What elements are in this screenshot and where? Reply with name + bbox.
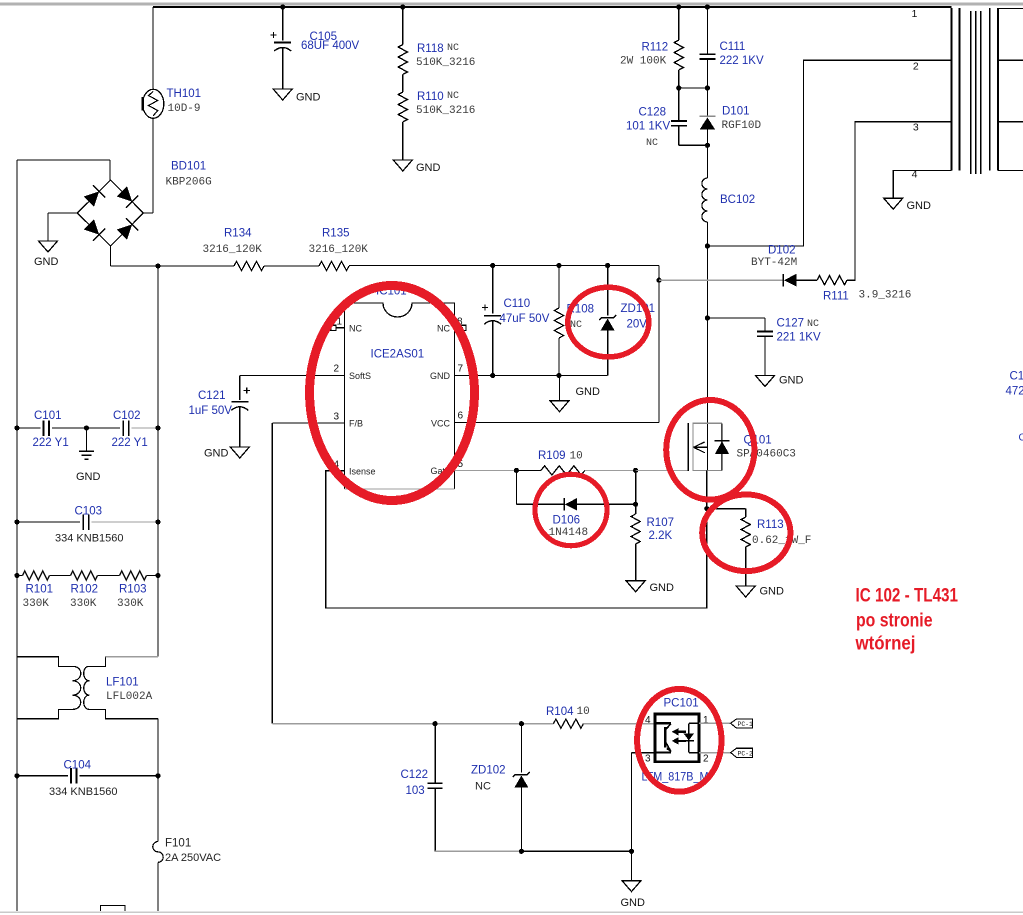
svg-text:3.9_3216: 3.9_3216 <box>859 290 912 302</box>
wire gnd stem pin7 <box>559 376 561 401</box>
svg-text:GND: GND <box>34 256 59 268</box>
junction R101 left <box>14 573 19 578</box>
label R113 value <box>752 535 811 547</box>
wire LF101 top-left lead <box>17 657 73 667</box>
wire R111 to pin3 <box>847 122 952 281</box>
ground C105 <box>273 89 320 104</box>
inductor BC102 <box>702 178 707 222</box>
svg-text:R111: R111 <box>823 291 849 303</box>
svg-text:po stronie: po stronie <box>856 611 933 632</box>
label PC101 pin1 <box>703 715 709 726</box>
wire feedback rail <box>272 723 553 725</box>
junction gate node <box>633 468 638 473</box>
label R110 <box>417 91 444 103</box>
annotation text IC 102 - TL431 <box>855 586 959 655</box>
label R111 <box>823 291 849 303</box>
svg-text:ZD102: ZD102 <box>471 765 506 777</box>
junction AC node <box>155 263 160 268</box>
label pin name VCC <box>431 418 451 428</box>
ground C127 <box>756 375 804 387</box>
label C102 value <box>112 437 148 449</box>
wire right column lower <box>157 719 159 842</box>
wire R102-R103 <box>98 575 120 577</box>
svg-text:GND: GND <box>296 92 321 104</box>
label C127 NC <box>807 319 819 330</box>
bridge BD101 wires <box>17 160 110 180</box>
wire PC101 pin3 <box>632 753 656 852</box>
svg-text:2W 100K: 2W 100K <box>620 56 667 68</box>
svg-text:3: 3 <box>645 754 651 765</box>
svg-text:NC: NC <box>807 319 819 330</box>
capacitor C104 <box>17 768 158 784</box>
label xfmr pin 4 <box>912 169 918 181</box>
wire left column <box>16 160 18 911</box>
svg-text:D101: D101 <box>722 106 750 118</box>
ground bridge <box>34 241 59 268</box>
resistor R110 <box>398 92 407 122</box>
label R118 NC <box>447 43 459 54</box>
svg-text:GND: GND <box>760 586 785 598</box>
wire bridge minus <box>48 213 77 241</box>
label pin 6 <box>458 411 464 422</box>
label C121 <box>198 390 226 402</box>
resistor R104 <box>553 719 583 728</box>
svg-text:R134: R134 <box>224 228 252 240</box>
label BD101 <box>171 161 206 173</box>
resistor R103 <box>120 571 159 580</box>
label C122 <box>401 769 429 781</box>
label R104 value <box>577 706 590 718</box>
svg-text:510K_3216: 510K_3216 <box>416 105 475 117</box>
wire PC101 pin2 to PC-2 <box>699 752 731 754</box>
label xfmr pin 3 <box>913 122 919 134</box>
optocoupler phototransistor <box>655 723 671 752</box>
svg-text:R118: R118 <box>417 43 444 55</box>
wire D102 anode <box>659 279 783 281</box>
wire LF101 bottom-left lead <box>17 709 72 718</box>
label R135 <box>322 228 350 240</box>
label ZD101 <box>621 303 656 315</box>
label TH101 value <box>168 103 201 115</box>
label C128 value <box>626 121 670 133</box>
label R108 NC <box>570 320 582 331</box>
capacitor C103 <box>17 514 158 530</box>
label C127 <box>777 318 805 330</box>
svg-text:330K: 330K <box>70 598 97 610</box>
ground R107 <box>626 581 674 594</box>
svg-text:Q101: Q101 <box>744 435 772 447</box>
capacitor C101 <box>17 420 120 436</box>
label R112 <box>642 42 669 54</box>
svg-text:PC-2: PC-2 <box>738 751 754 758</box>
svg-text:334 KNB1560: 334 KNB1560 <box>55 533 124 545</box>
svg-text:NC: NC <box>437 323 450 333</box>
label R134 <box>224 228 252 240</box>
svg-text:68UF 400V: 68UF 400V <box>301 40 360 52</box>
label C127 value <box>777 332 821 344</box>
optocoupler LED <box>684 723 699 752</box>
wire R134-R135 <box>264 265 319 267</box>
junction drain node <box>705 243 710 248</box>
label R101 value <box>23 598 50 610</box>
svg-text:10D-9: 10D-9 <box>168 103 201 115</box>
junction ZD102 bottom <box>519 849 524 854</box>
svg-text:GND: GND <box>907 200 932 212</box>
label R135 value <box>309 244 369 256</box>
capacitor C105 <box>270 7 291 89</box>
transformer secondary winding bars <box>990 8 998 171</box>
label pin 1 <box>336 317 342 328</box>
svg-text:101 1KV: 101 1KV <box>626 121 670 133</box>
label pin name NC right <box>437 323 450 333</box>
label R109 value <box>570 451 583 463</box>
wire TH101 top <box>152 7 154 90</box>
pin 2 SoftS wire <box>240 374 345 376</box>
pin 4 Isense wire <box>326 471 707 608</box>
label pin 8 <box>457 317 463 328</box>
svg-text:GND: GND <box>430 371 451 381</box>
svg-text:2: 2 <box>333 364 339 375</box>
label secondary cap value 472 (clipped) <box>1006 386 1023 398</box>
transformer core <box>971 11 981 174</box>
junction pin7 / C110 <box>490 373 495 378</box>
svg-text:R107: R107 <box>647 517 675 529</box>
svg-text:10: 10 <box>570 451 583 463</box>
label xfmr pin 2 <box>913 61 919 73</box>
wire R118-R110 <box>402 75 404 93</box>
junction D106 / R107 <box>633 502 638 507</box>
label pin name NC left <box>349 323 362 333</box>
wire fb gnd rail <box>521 850 631 852</box>
label IC101 refdes <box>376 286 407 298</box>
svg-text:4: 4 <box>645 715 651 726</box>
svg-text:GND: GND <box>204 448 229 460</box>
svg-text:BD101: BD101 <box>171 161 206 173</box>
capacitor C128 <box>671 88 708 145</box>
svg-text:GND: GND <box>576 386 601 398</box>
wire Q101 source <box>706 471 708 509</box>
ground C121 <box>204 447 249 460</box>
transformer primary winding bars <box>952 8 960 171</box>
svg-text:BYT-42M: BYT-42M <box>751 257 797 269</box>
svg-text:R109: R109 <box>538 450 566 462</box>
connector PC-1 <box>731 719 753 728</box>
svg-text:KBP206G: KBP206G <box>166 177 212 189</box>
label ZD101 value <box>627 319 648 331</box>
label R110 NC <box>447 91 459 102</box>
inductor LF101 right winding <box>84 666 90 709</box>
label D101 <box>722 106 750 118</box>
svg-text:2: 2 <box>913 61 919 73</box>
wire fuse bottom <box>157 862 159 911</box>
label C101 <box>34 410 62 422</box>
label R102 value <box>70 598 97 610</box>
bridge rectifier BD101 <box>77 180 143 246</box>
junction C104 left <box>14 773 19 778</box>
label R102 <box>71 584 99 596</box>
label pin name F/B <box>349 419 363 429</box>
svg-text:1uF 50V: 1uF 50V <box>189 405 233 417</box>
svg-text:C122: C122 <box>401 769 429 781</box>
resistor R134 <box>234 261 264 270</box>
svg-text:330K: 330K <box>117 598 144 610</box>
label PC101 <box>664 698 699 710</box>
svg-text:2: 2 <box>703 754 709 765</box>
svg-text:103: 103 <box>406 785 425 797</box>
label C128 <box>639 107 667 119</box>
transistor Q101 body diode <box>715 423 730 470</box>
svg-text:NC: NC <box>447 91 459 102</box>
wire LF101 top-right lead <box>89 657 158 667</box>
resistor R108 <box>554 266 563 376</box>
annotation ellipse IC101 <box>310 286 475 501</box>
label C110 <box>504 298 531 310</box>
svg-text:3216_120K: 3216_120K <box>309 244 369 256</box>
svg-text:R104: R104 <box>546 706 574 718</box>
wire gate-R109 <box>516 469 541 471</box>
junction pin7 / R108 <box>556 373 561 378</box>
label pin 4 <box>333 459 339 470</box>
label C121 value <box>189 405 233 417</box>
pin 6 VCC wire <box>455 421 660 423</box>
label C105 <box>310 31 338 43</box>
wire bridge bottom <box>111 246 235 266</box>
wire BC102 bottom <box>706 222 708 246</box>
svg-text:SPA0460C3: SPA0460C3 <box>737 449 796 461</box>
svg-text:NC: NC <box>349 323 362 333</box>
thermistor TH101 <box>143 89 164 118</box>
diode D106 <box>564 498 636 511</box>
label PC101 pin3 <box>645 754 651 765</box>
wire secondary stub 4 <box>998 170 1023 172</box>
junction gate / D106 <box>514 468 519 473</box>
svg-text:F101: F101 <box>165 838 191 850</box>
svg-text:R113: R113 <box>757 519 784 531</box>
junction source / R113 <box>704 506 709 511</box>
annotation circle R113 <box>702 495 790 572</box>
svg-text:2A 250VAC: 2A 250VAC <box>165 852 221 864</box>
svg-text:LF101: LF101 <box>106 677 139 689</box>
svg-text:NC: NC <box>447 43 459 54</box>
label D102 <box>768 245 796 257</box>
wire R104 to PC101 <box>583 723 655 725</box>
label R104 <box>546 706 574 718</box>
svg-text:GND: GND <box>650 582 675 594</box>
wire VCC rail <box>349 266 659 423</box>
optocoupler light arrows <box>672 728 686 744</box>
pin 8 NC stub <box>455 325 467 330</box>
svg-text:RGF10D: RGF10D <box>722 120 762 132</box>
label xfmr pin 1 <box>912 8 918 20</box>
ground feedback <box>621 881 646 909</box>
svg-text:222 1KV: 222 1KV <box>720 55 764 67</box>
svg-text:PC101: PC101 <box>664 698 699 710</box>
junction gnd rail / PC101 <box>629 849 634 854</box>
wire gnd stem <box>631 851 633 880</box>
label C104 value <box>49 786 118 798</box>
svg-text:C1: C1 <box>1010 371 1023 383</box>
svg-text:330K: 330K <box>23 598 50 610</box>
svg-text:6: 6 <box>458 411 464 422</box>
ground R113 <box>736 586 784 598</box>
wire TH101 bottom <box>144 118 154 213</box>
annotation circle D106 <box>535 474 607 545</box>
svg-text:F/B: F/B <box>349 419 363 429</box>
junction VCC / D102 <box>656 278 661 283</box>
label pin name SoftS <box>349 371 371 381</box>
svg-text:wtórnej: wtórnej <box>855 634 916 655</box>
svg-text:47uF 50V: 47uF 50V <box>500 313 550 325</box>
pin 3 F/B wire <box>272 423 344 724</box>
wire secondary stub 1 <box>998 8 1023 10</box>
label LF101 value <box>106 691 153 703</box>
label R101 <box>26 584 54 596</box>
wire R110 bottom <box>402 122 404 160</box>
label Q101 value <box>737 449 796 461</box>
label C103 <box>75 506 103 518</box>
label R103 value <box>117 598 144 610</box>
svg-text:R103: R103 <box>119 584 147 596</box>
capacitor C121 <box>231 375 250 447</box>
wire fb gnd rail gray <box>435 850 521 852</box>
svg-text:C104: C104 <box>64 760 92 772</box>
label D101 value <box>722 120 762 132</box>
label R112 value <box>620 56 667 68</box>
label PC101 value <box>642 772 709 784</box>
label D106 <box>553 515 581 527</box>
wire pin7 rail <box>455 375 608 377</box>
svg-text:472: 472 <box>1006 386 1023 398</box>
bottom window border <box>0 911 1023 913</box>
svg-text:334 KNB1560: 334 KNB1560 <box>49 786 118 798</box>
label C102 <box>113 410 141 422</box>
label clipped char <box>1019 433 1023 444</box>
resistor R102 <box>71 571 98 580</box>
svg-text:510K_3216: 510K_3216 <box>416 57 475 69</box>
junction C103 left <box>14 519 19 524</box>
svg-text:221 1KV: 221 1KV <box>777 332 821 344</box>
junction VCC rail / ZD101 <box>605 263 610 268</box>
junction C101 left <box>14 425 19 430</box>
label R109 <box>538 450 566 462</box>
svg-text:3216_120K: 3216_120K <box>203 244 263 256</box>
svg-text:TH101: TH101 <box>167 88 202 100</box>
label C105 value <box>301 40 360 52</box>
wire LF101 bottom-right lead <box>89 709 158 718</box>
label C110 value <box>500 313 550 325</box>
label C101 value <box>33 437 69 449</box>
svg-text:3: 3 <box>913 122 919 134</box>
junction fb / ZD102 <box>519 721 524 726</box>
svg-text:IC 102 - TL431: IC 102 - TL431 <box>856 586 959 607</box>
svg-text:C103: C103 <box>75 506 103 518</box>
wire top HV rail <box>153 6 952 8</box>
label BD101 value <box>166 177 212 189</box>
wire PC101 pin1 to PC-1 <box>699 722 731 724</box>
inductor LF101 left winding <box>72 666 80 709</box>
capacitor C111 <box>699 7 715 88</box>
svg-text:NC: NC <box>646 138 658 149</box>
label ZD102 <box>471 765 506 777</box>
connector PC-2 <box>731 748 753 757</box>
svg-text:C121: C121 <box>198 390 226 402</box>
label pin 5 <box>458 459 464 470</box>
label PC101 pin2 <box>703 754 709 765</box>
label R118 value <box>416 57 475 69</box>
annotation circle ZD101 <box>568 287 649 357</box>
label D106 value <box>549 527 589 539</box>
optocoupler PC101 body <box>655 714 699 762</box>
label PC101 pin4 <box>645 715 651 726</box>
svg-text:1: 1 <box>703 715 709 726</box>
svg-text:GND: GND <box>76 471 101 483</box>
svg-text:PC-1: PC-1 <box>738 721 754 728</box>
transistor Q101 gate bar <box>687 423 689 471</box>
svg-text:R135: R135 <box>322 228 350 240</box>
svg-text:R102: R102 <box>71 584 99 596</box>
junction D101/C128 <box>705 143 710 148</box>
label Q101 <box>744 435 772 447</box>
junction VCC rail / R108 <box>556 263 561 268</box>
junction top rail / R112 <box>676 4 681 9</box>
ground pin7 rail <box>550 386 600 412</box>
svg-text:GND: GND <box>416 162 441 174</box>
wire drain <box>706 246 708 471</box>
earth ground C101/C102 <box>76 428 101 483</box>
connector AC inlet <box>101 906 126 912</box>
junction C102 right <box>155 425 160 430</box>
label F101 value <box>165 852 221 864</box>
svg-text:3: 3 <box>333 411 339 422</box>
pin 1 NC stub <box>331 325 345 330</box>
junction top rail / R118 <box>400 4 405 9</box>
svg-text:BC102: BC102 <box>720 194 755 206</box>
label C103 value <box>55 533 124 545</box>
junction R103 right <box>155 573 160 578</box>
label D102 value <box>751 257 797 269</box>
svg-text:2.2K: 2.2K <box>649 530 673 542</box>
svg-text:D106: D106 <box>553 515 581 527</box>
transistor Q101 arrow <box>694 442 708 453</box>
wire xfmr pin4 <box>893 171 951 199</box>
wire to xfmr pin2 <box>707 60 951 246</box>
transistor Q101 body <box>693 423 722 470</box>
resistor R109 <box>541 466 585 475</box>
svg-text:C111: C111 <box>720 41 746 53</box>
svg-text:10: 10 <box>577 706 590 718</box>
junction fb / C122 <box>433 721 438 726</box>
label R113 <box>757 519 784 531</box>
label ICE2AS01 <box>371 349 425 361</box>
svg-text:C110: C110 <box>504 298 531 310</box>
svg-text:R101: R101 <box>26 584 54 596</box>
svg-text:LFL002A: LFL002A <box>106 691 153 703</box>
svg-text:SoftS: SoftS <box>349 371 371 381</box>
junction C101-C102 <box>84 425 89 430</box>
resistor R107 <box>631 470 640 580</box>
wire secondary stub 2 <box>998 59 1023 61</box>
wire R101-R102 <box>50 575 71 577</box>
junction top rail / C105 <box>280 4 285 9</box>
wire secondary stub 3 <box>998 121 1023 123</box>
top window border <box>0 3 1023 6</box>
label C111 value <box>720 55 764 67</box>
diode D101 <box>700 88 716 178</box>
diode D102 <box>783 274 817 287</box>
label pin name Gate <box>430 466 450 476</box>
label R110 value <box>416 105 475 117</box>
svg-text:GND: GND <box>779 375 804 387</box>
